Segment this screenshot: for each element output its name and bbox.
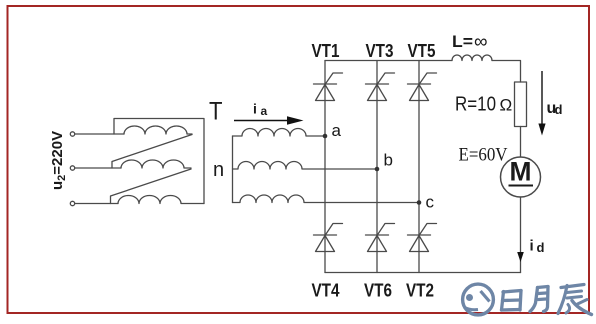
- arrow i_a: [234, 120, 289, 122]
- svg-text:i: i: [530, 238, 534, 255]
- primary winding P3: [118, 196, 204, 204]
- svg-text:VT4: VT4: [312, 281, 340, 301]
- wire delta diagonal 2: [111, 169, 192, 204]
- svg-text:R=10: R=10: [455, 94, 496, 116]
- arrow u_d: [541, 71, 543, 124]
- svg-text:d: d: [555, 102, 563, 117]
- svg-text:VT3: VT3: [366, 41, 394, 61]
- secondary winding Sa: [233, 129, 326, 136]
- svg-text:E=60V: E=60V: [459, 145, 508, 166]
- svg-text:VT6: VT6: [364, 281, 392, 301]
- node c junction dot: [417, 200, 422, 205]
- terminal V: [70, 166, 74, 170]
- secondary winding Sc: [233, 195, 420, 202]
- wire delta link top rail: [114, 119, 204, 204]
- wire resistor to motor: [520, 127, 522, 158]
- svg-text:b: b: [384, 151, 393, 170]
- wire bridge leg 3: [418, 61, 420, 273]
- svg-text:L=: L=: [452, 32, 473, 51]
- thyristor VT5: [408, 73, 437, 101]
- watermark logo circle: [463, 284, 494, 315]
- watermark char YUE: [530, 287, 548, 312]
- thyristor VT4: [314, 224, 343, 252]
- thyristor VT2: [408, 224, 437, 252]
- watermark char RI: [502, 291, 522, 311]
- wire bridge leg 1: [324, 61, 326, 273]
- svg-text:∞: ∞: [474, 32, 488, 53]
- terminal W: [70, 201, 74, 205]
- svg-text:VT1: VT1: [312, 41, 340, 61]
- svg-text:i: i: [253, 101, 257, 117]
- svg-text:u2=220V: u2=220V: [49, 131, 68, 190]
- arrow i_d: [517, 252, 524, 262]
- wire top rail to load: [492, 61, 521, 83]
- wire motor to bottom rail: [520, 197, 522, 273]
- thyristor VT1: [314, 73, 343, 101]
- primary winding P2: [121, 160, 191, 168]
- node a junction dot: [323, 134, 328, 139]
- svg-text:c: c: [426, 193, 435, 212]
- node b junction dot: [375, 167, 380, 172]
- wire negative bottom rail: [325, 272, 521, 274]
- svg-text:Ω: Ω: [500, 96, 513, 115]
- svg-text:M: M: [510, 157, 532, 187]
- wire phase-W input: [75, 203, 118, 205]
- wire delta diagonal 1: [112, 135, 192, 169]
- thyristor VT3: [366, 73, 395, 101]
- svg-text:a: a: [332, 121, 342, 140]
- wire positive top rail: [325, 60, 452, 62]
- terminal U: [70, 132, 74, 136]
- inductor L: [452, 55, 492, 61]
- svg-text:d: d: [537, 240, 545, 255]
- svg-text:a: a: [261, 104, 268, 118]
- wire secondary star bus n: [232, 136, 234, 203]
- motor M circle: [501, 157, 541, 197]
- secondary winding Sb: [233, 162, 378, 169]
- watermark char CHEN: [558, 285, 592, 315]
- svg-text:VT5: VT5: [408, 41, 436, 61]
- svg-text:T: T: [209, 98, 223, 126]
- thyristor VT6: [366, 224, 395, 252]
- svg-text:n: n: [213, 159, 224, 181]
- resistor R: [515, 82, 527, 127]
- svg-text:VT2: VT2: [406, 281, 434, 301]
- wire bridge leg 2: [376, 61, 378, 273]
- wire phase-U input: [75, 133, 124, 135]
- wire phase-V input: [75, 167, 121, 169]
- primary winding P1: [124, 126, 192, 134]
